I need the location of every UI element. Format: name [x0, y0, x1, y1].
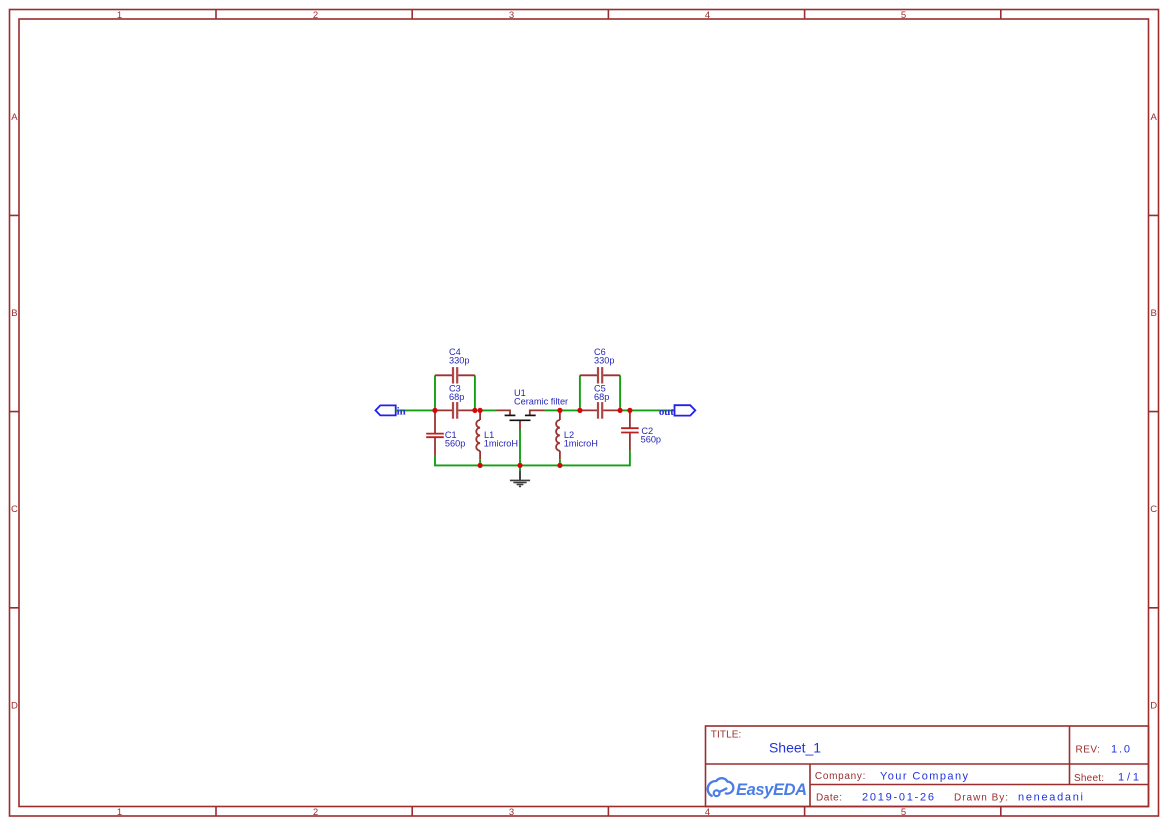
port out	[675, 405, 696, 415]
junction node C5/C6 left	[577, 408, 582, 413]
wire U1 pin3 to rail	[519, 430, 521, 465]
label C6	[594, 347, 606, 357]
svg-text:1.0: 1.0	[1111, 744, 1130, 756]
label L1 value 1microH	[484, 439, 518, 449]
label C6 value 330p	[594, 356, 614, 366]
label C1 value 560p	[445, 439, 465, 449]
label L2	[564, 430, 574, 440]
svg-text:Date:: Date:	[816, 792, 842, 803]
svg-text:4: 4	[705, 807, 710, 818]
svg-text:neneadani: neneadani	[1018, 791, 1083, 803]
svg-text:Your Company: Your Company	[880, 770, 969, 782]
junction node L1 bottom	[478, 463, 483, 468]
wire C2 node to out port	[630, 409, 675, 411]
capacitor C6	[580, 367, 620, 383]
svg-text:Ceramic filter: Ceramic filter	[514, 397, 568, 407]
label C3 value 68p	[449, 392, 464, 402]
svg-text:68p: 68p	[594, 392, 609, 402]
label C4	[449, 347, 461, 357]
junction node L2 bottom	[557, 463, 562, 468]
svg-text:330p: 330p	[449, 356, 469, 366]
EasyEDA logo	[708, 778, 807, 799]
junction node C5/C6 right	[618, 408, 623, 413]
svg-text:Company:: Company:	[815, 771, 866, 782]
label C2	[641, 426, 653, 436]
svg-text:REV:: REV:	[1076, 745, 1101, 756]
label L2 value 1microH	[564, 439, 598, 449]
title block	[706, 726, 1149, 807]
wire C4 loop right riser	[474, 375, 476, 410]
wire L2 bottom to rail	[559, 460, 561, 466]
svg-text:330p: 330p	[594, 356, 614, 366]
label C3	[449, 383, 461, 393]
wire C6 loop left riser	[579, 375, 581, 410]
net label out	[659, 406, 674, 418]
ceramic filter U1	[497, 410, 545, 430]
label C4 value 330p	[449, 356, 469, 366]
svg-text:3: 3	[509, 807, 514, 818]
svg-text:68p: 68p	[449, 392, 464, 402]
capacitor C1	[426, 410, 444, 456]
wire L2 node to C5 loop	[560, 409, 580, 411]
svg-text:2019-01-26: 2019-01-26	[862, 791, 934, 803]
svg-text:1microH: 1microH	[564, 439, 598, 449]
svg-text:TITLE:: TITLE:	[711, 730, 742, 741]
ground	[510, 471, 530, 487]
svg-text:1/1: 1/1	[1118, 771, 1139, 783]
wire ground stub	[519, 465, 521, 470]
svg-text:in: in	[397, 406, 406, 418]
svg-text:C: C	[11, 504, 18, 515]
label C5 value 68p	[594, 392, 609, 402]
svg-text:C: C	[1150, 504, 1157, 515]
svg-text:Drawn By:: Drawn By:	[954, 793, 1008, 804]
junction node at in/C1/C3/C4	[432, 408, 437, 413]
svg-text:D: D	[1150, 700, 1157, 711]
svg-text:Sheet:: Sheet:	[1074, 773, 1104, 784]
junction node C3/C4 right	[472, 408, 477, 413]
label U1	[514, 388, 526, 398]
svg-text:560p: 560p	[445, 439, 465, 449]
wire C2 bottom to rail	[629, 451, 631, 467]
wire U1 pin2 to L2 node	[545, 409, 560, 411]
svg-text:1: 1	[117, 10, 122, 21]
svg-text:A: A	[11, 112, 18, 123]
svg-text:560p: 560p	[641, 435, 661, 445]
wire C1 bottom to rail	[434, 456, 436, 466]
net label in	[397, 406, 406, 418]
svg-text:5: 5	[901, 807, 906, 818]
junction node L2 top	[557, 408, 562, 413]
junction node C2 top	[627, 408, 632, 413]
label C2 value 560p	[641, 435, 661, 445]
label U1 value Ceramic filter	[514, 397, 568, 407]
label C5	[594, 383, 606, 393]
svg-text:2: 2	[313, 10, 318, 21]
port in	[376, 405, 396, 415]
svg-text:2: 2	[313, 807, 318, 818]
label L1	[484, 430, 494, 440]
wire node to U1 pin1	[480, 409, 496, 411]
svg-text:4: 4	[705, 10, 710, 21]
junction node ground	[517, 463, 522, 468]
inductor L1	[476, 410, 480, 459]
junction node L1 top	[478, 408, 483, 413]
svg-text:1microH: 1microH	[484, 439, 518, 449]
wire C6 loop right riser	[619, 375, 621, 410]
svg-text:3: 3	[509, 10, 514, 21]
label C1	[445, 430, 457, 440]
wire C4 loop left riser	[434, 375, 436, 410]
svg-text:B: B	[11, 308, 17, 319]
svg-text:1: 1	[117, 807, 122, 818]
svg-text:5: 5	[901, 10, 906, 21]
svg-text:B: B	[1151, 308, 1157, 319]
capacitor C4	[435, 367, 475, 383]
svg-text:EasyEDA: EasyEDA	[736, 781, 807, 799]
capacitor C3	[435, 402, 475, 419]
capacitor C2	[621, 410, 639, 450]
capacitor C5	[580, 402, 620, 419]
wire C5 loop to C2 node	[620, 409, 630, 411]
svg-text:D: D	[11, 700, 18, 711]
wire L1 bottom to rail	[479, 460, 481, 466]
inductor L2	[556, 410, 560, 459]
svg-text:A: A	[1151, 112, 1158, 123]
wire in port to node	[396, 409, 435, 411]
svg-text:out: out	[659, 406, 674, 418]
wire ground rail	[435, 464, 630, 466]
svg-text:Sheet_1: Sheet_1	[769, 740, 821, 756]
